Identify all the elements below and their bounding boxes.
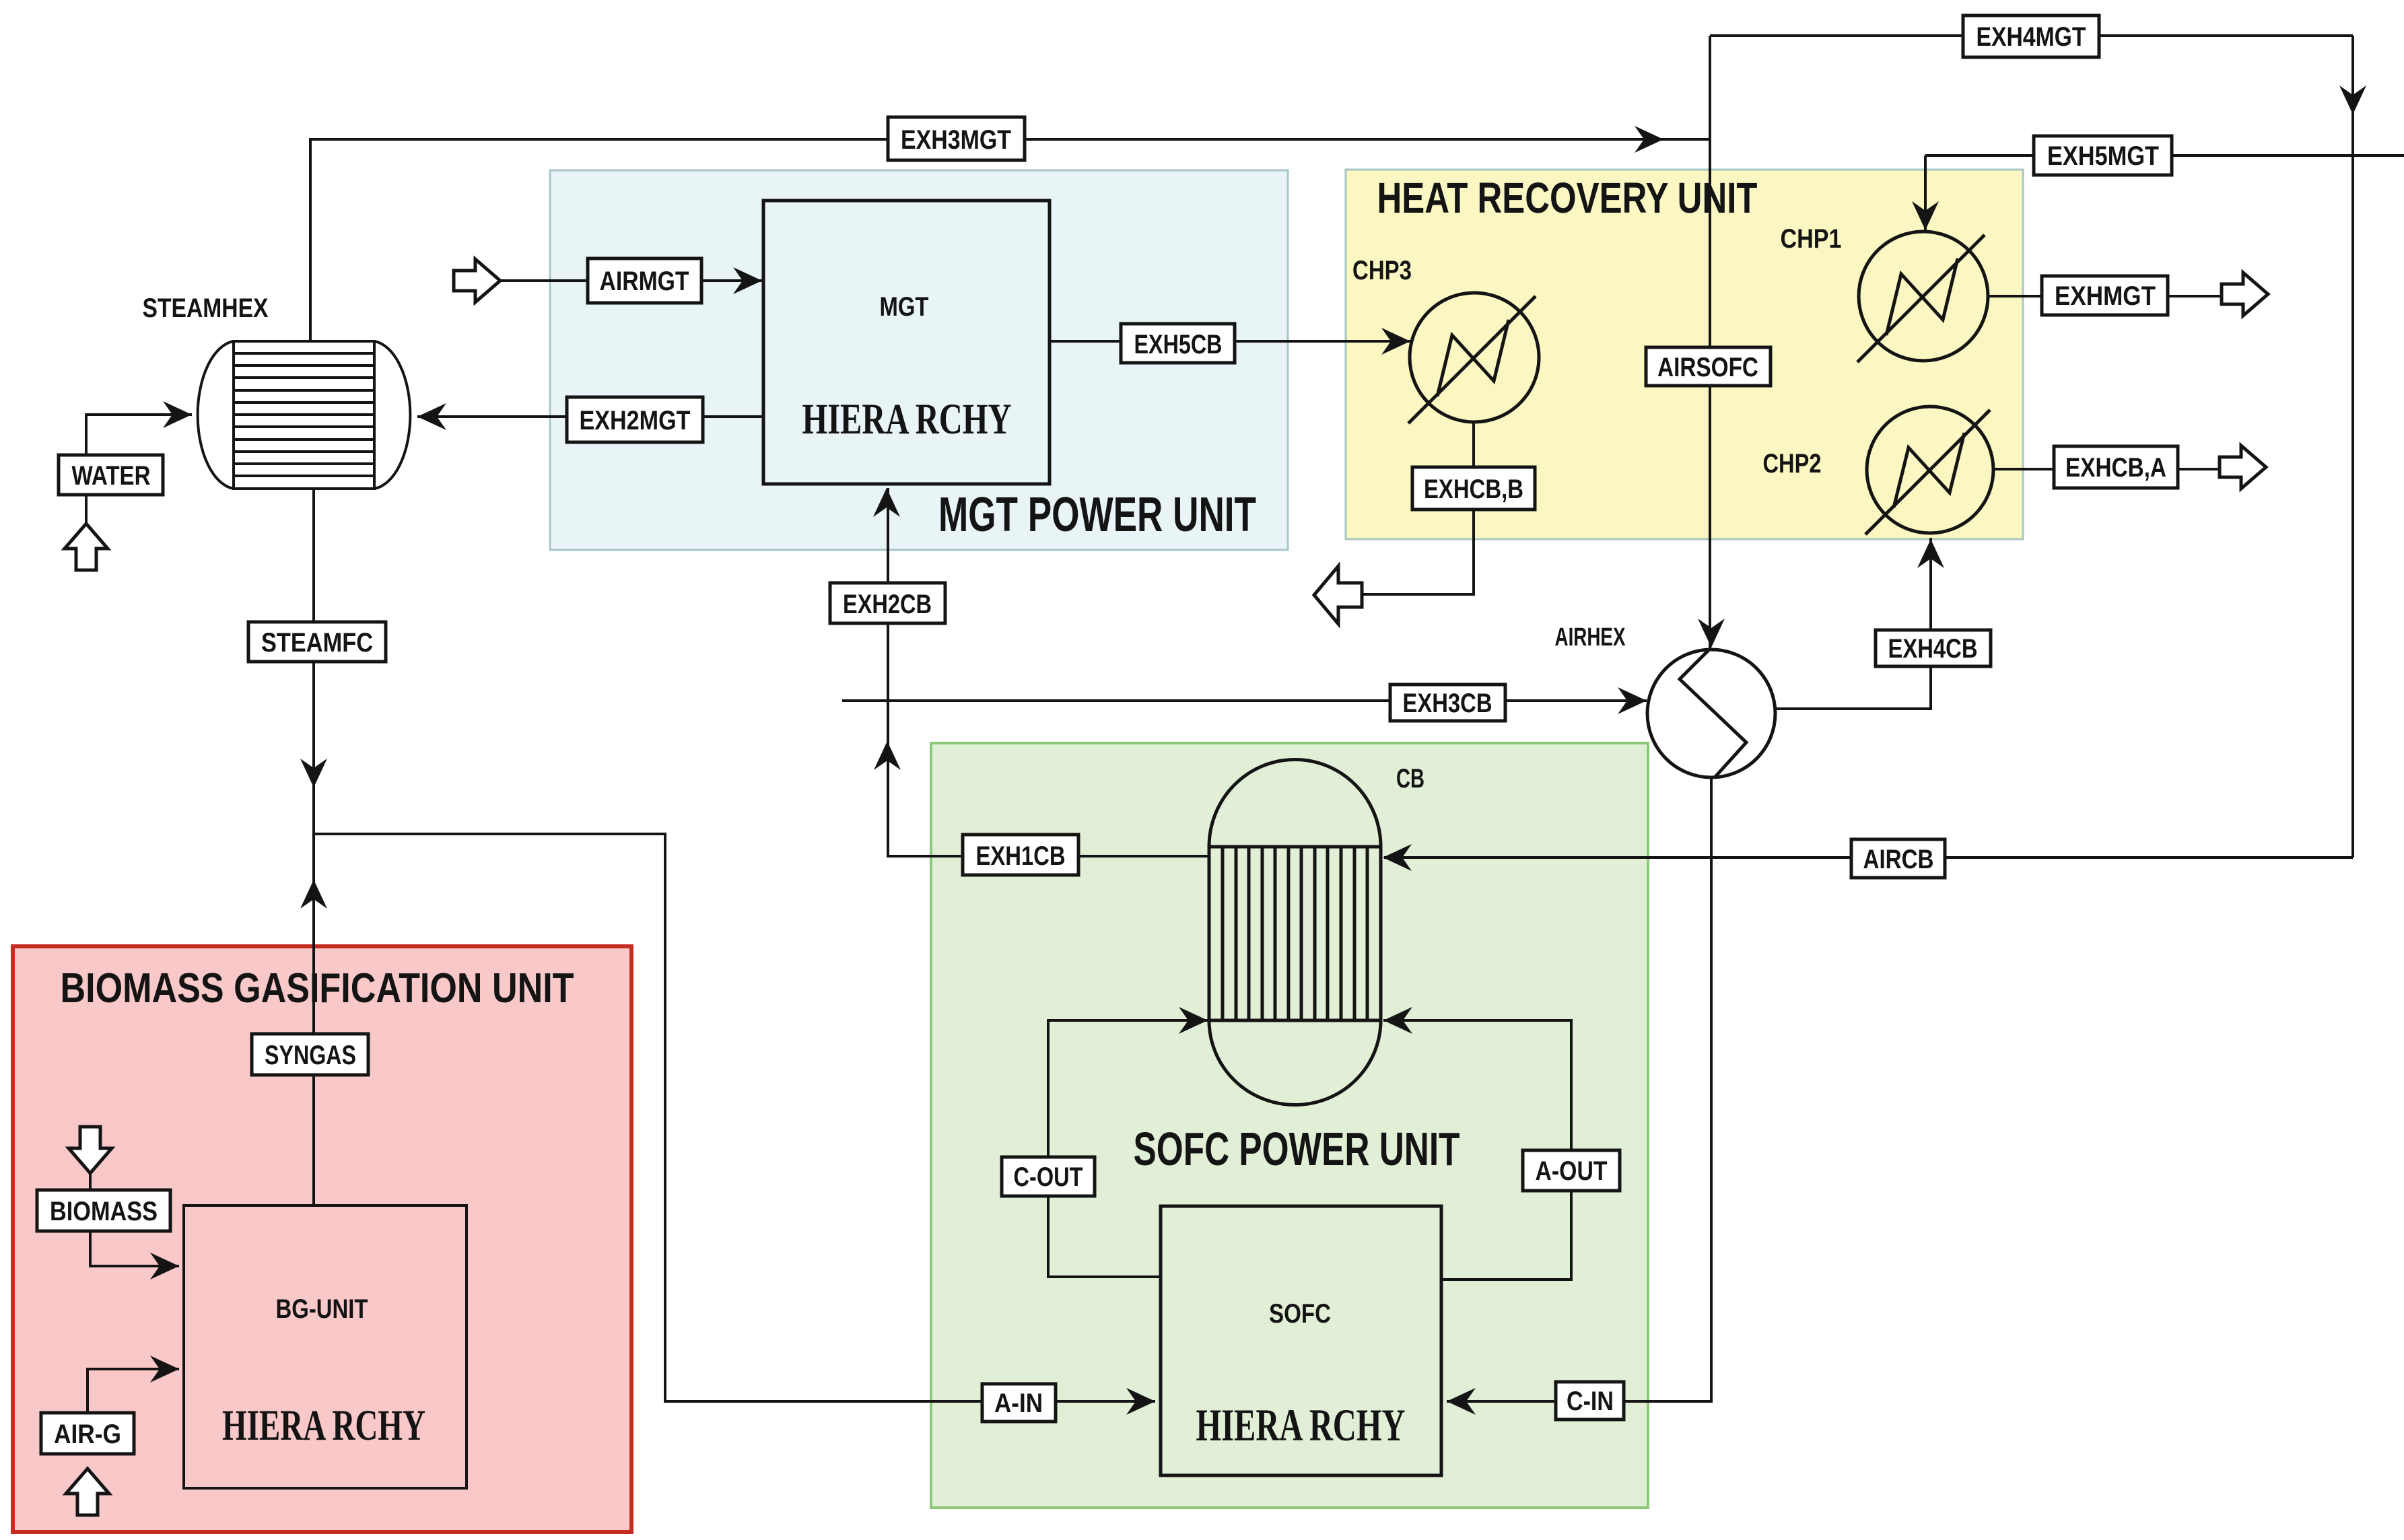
stream label STEAMFC (248, 622, 386, 662)
wire right edge vertical (EXH4MGT down to AIRCB) (2351, 36, 2354, 858)
unit box SOFC POWER UNIT (931, 743, 1648, 1508)
svg-text:AIR-G: AIR-G (54, 1420, 121, 1449)
stream label A-OUT (1523, 1150, 1620, 1191)
svg-text:EXHMGT: EXHMGT (2055, 281, 2156, 311)
stream label A-IN (982, 1384, 1056, 1422)
svg-text:EXH5CB: EXH5CB (1134, 330, 1223, 359)
svg-text:BIOMASS GASIFICATION UNIT: BIOMASS GASIFICATION UNIT (61, 965, 574, 1012)
wire EXH3MGT: STEAMHEX top to junction (310, 139, 1710, 341)
stream label EXH3CB (1390, 685, 1505, 721)
arrowheads (1635, 126, 1663, 153)
svg-text:AIRHEX: AIRHEX (1555, 623, 1626, 652)
wire A-IN branch (314, 834, 1155, 1401)
wire EXH5CB: MGT to CHP3 (1050, 340, 1410, 343)
wire EXH4CB: AIRHEX to CHP2 (1775, 538, 1931, 709)
svg-text:EXH1CB: EXH1CB (976, 841, 1066, 871)
stream label EXH2CB (830, 583, 945, 623)
svg-text:EXH3MGT: EXH3MGT (901, 125, 1011, 155)
stream label EXH2MGT (567, 397, 703, 442)
stream label BIOMASS (37, 1190, 170, 1231)
wire C-IN: AIRHEX bottom to SOFC (1447, 778, 1711, 1401)
stream label C-IN (1556, 1382, 1624, 1420)
unit box MGT POWER UNIT (550, 170, 1288, 550)
svg-text:AIRMGT: AIRMGT (600, 267, 689, 296)
svg-text:EXH2CB: EXH2CB (843, 590, 932, 619)
svg-text:CHP1: CHP1 (1781, 224, 1842, 254)
wire AIR-G into BG-UNIT (88, 1369, 179, 1413)
svg-text:A-OUT: A-OUT (1536, 1156, 1608, 1186)
heater CHP3 (1408, 293, 1539, 423)
svg-text:C-IN: C-IN (1567, 1387, 1614, 1416)
stream label EXH4MGT (1963, 15, 2099, 57)
heater CHP2 (1865, 407, 1993, 534)
svg-text:HIERA RCHY: HIERA RCHY (1196, 1399, 1406, 1450)
svg-text:C-OUT: C-OUT (1014, 1162, 1083, 1192)
heat exchanger STEAMHEX (198, 341, 411, 489)
svg-text:A-IN: A-IN (994, 1389, 1043, 1418)
stream label EXH4CB (1876, 630, 1991, 666)
svg-text:CHP3: CHP3 (1352, 256, 1412, 285)
svg-text:AIRCB: AIRCB (1863, 845, 1934, 874)
svg-text:WATER: WATER (72, 461, 151, 491)
svg-text:CB: CB (1396, 764, 1424, 794)
heat exchanger AIRHEX (1647, 650, 1775, 777)
wire AIRSOFC vertical (1709, 36, 1711, 649)
stream label C-OUT (1002, 1157, 1095, 1196)
wire AIRMGT (500, 279, 762, 282)
svg-text:SOFC: SOFC (1269, 1299, 1331, 1329)
svg-text:MGT: MGT (880, 292, 929, 322)
svg-text:STEAMFC: STEAMFC (261, 628, 373, 658)
svg-text:EXHCB,B: EXHCB,B (1424, 475, 1523, 504)
block BG-UNIT (HIERARCHY) (184, 1205, 467, 1488)
svg-text:EXH4CB: EXH4CB (1888, 634, 1978, 664)
wire EXH1CB / EXH2CB vertical to MGT (888, 488, 1209, 856)
stream label EXHCB,A (2054, 446, 2178, 488)
stream label AIRSOFC (1646, 347, 1771, 386)
wire EXHCB,A out of CHP2 (1994, 468, 2225, 470)
wire WATER to STEAMHEX (86, 415, 192, 455)
heater CHP1 (1857, 232, 1988, 362)
stream label AIRMGT (588, 258, 701, 303)
stream label EXHCB,B (1412, 467, 1535, 510)
block MGT (HIERARCHY) (763, 201, 1050, 484)
svg-text:MGT POWER UNIT: MGT POWER UNIT (938, 488, 1256, 542)
wire EXH2MGT (417, 415, 763, 418)
block SOFC (HIERARCHY) (1161, 1206, 1441, 1475)
wire EXHCB,B: CHP3 down and left (1362, 423, 1474, 594)
wire EXH3CB (842, 699, 1647, 702)
wire AIRCB (1384, 856, 2353, 859)
unit box BIOMASS GASIFICATION UNIT (13, 946, 631, 1532)
stream label EXH1CB (963, 835, 1078, 875)
wire EXH5MGT (1925, 154, 2404, 157)
svg-text:AIRSOFC: AIRSOFC (1657, 353, 1758, 382)
stream label EXHMGT (2042, 276, 2168, 315)
svg-text:HIERA RCHY: HIERA RCHY (802, 395, 1012, 444)
wire EXH5MGT into CHP1 (1924, 155, 1927, 232)
svg-text:SYNGAS: SYNGAS (265, 1041, 356, 1070)
stream label AIR-G (41, 1413, 134, 1454)
svg-text:SOFC POWER UNIT: SOFC POWER UNIT (1134, 1123, 1460, 1175)
wire BIOMASS into BG-UNIT (90, 1231, 179, 1266)
svg-text:STEAMHEX: STEAMHEX (143, 293, 269, 323)
stream label WATER (59, 455, 163, 495)
stream label AIRCB (1851, 839, 1945, 878)
stream label EXH5MGT (2034, 136, 2172, 175)
wire STEAMFC / SYNGAS vertical (312, 489, 315, 1205)
wire A-OUT: SOFC to CB (1383, 1020, 1571, 1280)
svg-text:BIOMASS: BIOMASS (50, 1197, 158, 1226)
svg-text:EXH2MGT: EXH2MGT (580, 406, 691, 435)
combustor CB shell-tube (1209, 759, 1381, 1105)
source/sink block arrows (454, 259, 500, 302)
svg-text:EXHCB,A: EXHCB,A (2065, 453, 2166, 483)
wire C-OUT: SOFC to CB (1048, 1020, 1208, 1277)
svg-text:BG-UNIT: BG-UNIT (276, 1294, 368, 1324)
svg-text:EXH5MGT: EXH5MGT (2047, 141, 2159, 171)
svg-text:CHP2: CHP2 (1763, 449, 1822, 479)
wire EXHMGT out of CHP1 (1988, 295, 2227, 297)
stream label SYNGAS (252, 1034, 368, 1075)
wire WATER source stub (85, 495, 88, 524)
svg-text:HIERA RCHY: HIERA RCHY (222, 1401, 425, 1450)
stream label EXH3MGT (888, 117, 1025, 160)
wire BIOMASS source stub (89, 1146, 92, 1190)
wire EXH4MGT top (1710, 34, 2353, 37)
stream label EXH5CB (1121, 324, 1235, 363)
unit box HEAT RECOVERY UNIT (1346, 170, 2023, 539)
svg-text:HEAT RECOVERY UNIT: HEAT RECOVERY UNIT (1377, 174, 1758, 222)
svg-text:EXH3CB: EXH3CB (1403, 689, 1492, 718)
svg-text:EXH4MGT: EXH4MGT (1977, 22, 2086, 52)
